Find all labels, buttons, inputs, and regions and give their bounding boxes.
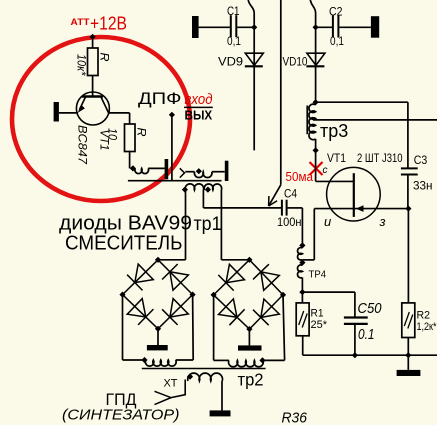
svg-text:C50: C50 [358, 301, 382, 317]
diode VD9 [245, 53, 263, 65]
wire R1 to rail [302, 336, 304, 355]
annotation red circle around attenuator [12, 37, 190, 201]
тр1 tap down to C4 wire [202, 190, 204, 208]
node left ring right [190, 292, 196, 298]
svg-text:R: R [98, 53, 112, 62]
node R1/C50 [299, 289, 305, 295]
svg-text:VT1: VT1 [327, 151, 346, 165]
wire source down to ТР4 tap [313, 209, 315, 260]
input terminal bar [54, 102, 59, 122]
svg-text:и: и [324, 214, 331, 229]
transistor base bar [82, 95, 103, 98]
svg-text:тр1: тр1 [194, 214, 222, 235]
wire тр1 right end to right ring [220, 190, 222, 260]
filter base line [128, 180, 222, 182]
VT1 channel [353, 173, 355, 217]
diode D5 (top-left) [226, 264, 245, 282]
svg-text:+12В: +12В [90, 14, 127, 34]
wire ТР4 to R1 node [301, 278, 303, 293]
inductor ТР4 winding upper [298, 248, 303, 260]
diode VD10 [307, 53, 325, 65]
resistor R 10к* [88, 48, 99, 76]
svg-text:СМЕСИТЕЛЬ: СМЕСИТЕЛЬ [65, 233, 183, 255]
svg-text:0.1: 0.1 [358, 327, 375, 343]
node ДПФ output [169, 112, 175, 118]
bottom rail wire [303, 354, 437, 356]
svg-text:R1: R1 [311, 308, 324, 320]
node left ring top [155, 257, 161, 263]
VT1 drain lead [316, 180, 354, 182]
svg-text:ВЫХ: ВЫХ [185, 107, 213, 122]
тр3 tap wire to right edge [313, 119, 437, 121]
wire node to C50 [302, 291, 355, 293]
capacitor C2 [332, 16, 334, 38]
wire node to R1 [301, 292, 303, 303]
svg-text:C1: C1 [227, 6, 240, 18]
svg-text:33н: 33н [413, 181, 433, 193]
node C1/VD9 [251, 24, 257, 30]
wire to filter coil L2 [185, 171, 194, 173]
ground right ring [248, 329, 250, 345]
тр2 primary left lead [171, 380, 185, 398]
wire C2 to ground bar [339, 26, 371, 28]
svg-text:BC847: BC847 [76, 125, 88, 165]
ground bar at C1 [192, 16, 199, 38]
тр2 primary right lead to ground [221, 381, 223, 410]
wire ring top to тр1 right [221, 259, 249, 261]
svg-text:R36: R36 [282, 410, 308, 425]
тр2 secondary right winding [229, 360, 264, 366]
red X measurement mark [310, 162, 323, 175]
node ТР4 top [299, 242, 305, 248]
diode D3 (bottom-left, toward bottom) [127, 299, 146, 317]
svg-text:с: с [323, 165, 328, 176]
wire left ring right node down [192, 295, 195, 360]
wire ДПФ node down [171, 115, 173, 181]
inductor ТР4 winding lower [297, 265, 302, 278]
wire R(10) down to filter coil [129, 152, 131, 169]
transistor emitter lead with arrow [80, 97, 86, 110]
svg-text:C3: C3 [414, 155, 428, 167]
VT1 source-gate line [314, 208, 408, 210]
svg-text:вход: вход [185, 91, 213, 108]
node тр3 top [313, 99, 319, 105]
svg-text:ТР4: ТР4 [309, 269, 327, 281]
wire right ring left node down [213, 295, 215, 361]
transformer тр1 winding left half [182, 187, 188, 193]
svg-text:C4: C4 [284, 189, 298, 201]
transformer тр3 winding [309, 104, 316, 140]
wire VD10 to тр3 top [315, 66, 317, 102]
wire C50 to rail [354, 324, 356, 355]
VT1 gate arrow [356, 205, 364, 212]
node C2/VD10 [313, 24, 319, 30]
тр2 secondary left winding [141, 357, 147, 363]
wire to top edge (squiggle) [248, 0, 254, 27]
svg-text:ХТ: ХТ [164, 378, 178, 390]
left mixer ring edges [123, 260, 159, 295]
capacitor C1 [230, 15, 232, 37]
transistor VT1 J310 circle [327, 167, 381, 221]
filter coil L2 with node [196, 168, 202, 174]
node +12V junction [90, 34, 96, 40]
connector ХТ chevron [155, 391, 172, 404]
diode D4 (bottom-right, toward bottom) [170, 299, 188, 318]
svg-text:50ма: 50ма [286, 169, 314, 184]
wire R to VT1 base [92, 76, 94, 97]
transistor collector lead [101, 97, 109, 113]
wire gate node to R2 [407, 209, 409, 303]
transformer тр1 winding right half [205, 187, 211, 193]
wire +12V to R(10k) [92, 37, 94, 48]
svg-text:0,1: 0,1 [330, 36, 344, 48]
wire C2 node to top edge (squiggle) [310, 0, 315, 27]
resistor R2 1,2к* [402, 303, 415, 338]
wire node to C2 [316, 26, 332, 28]
wire C1 node to VD9 [253, 27, 255, 66]
node C50/rail [352, 352, 358, 358]
diode D2 (top-right, toward top) [170, 272, 189, 290]
capacitor C3 [401, 167, 418, 169]
capacitor C4 [281, 200, 283, 216]
connector chevron [180, 168, 185, 177]
wire тр3 top to C3 rail [316, 101, 408, 103]
wire C2 node to VD10 [315, 27, 317, 66]
ground bar at C2 [371, 16, 379, 38]
svg-text:25*: 25* [311, 319, 328, 331]
svg-text:1,2к*: 1,2к* [417, 321, 437, 333]
wire C3 to gate node [407, 175, 409, 209]
diode D8 (bottom-right, toward bottom) [261, 299, 280, 318]
node right ring left [211, 292, 217, 298]
wire right ring right node down [283, 295, 285, 361]
capacitor C50 [344, 316, 368, 318]
node gate/C3/R2 [405, 206, 411, 212]
svg-text:2 ШТ J310: 2 ШТ J310 [357, 151, 403, 165]
node right ring right [280, 292, 286, 298]
svg-text:тр3: тр3 [320, 121, 348, 141]
wire тр1 tap to C4 [204, 207, 282, 209]
svg-text:R: R [135, 128, 149, 137]
тр3 core line [306, 106, 308, 135]
svg-text:VD10: VD10 [283, 57, 308, 69]
svg-text:VT1: VT1 [98, 130, 110, 151]
wire тр1 left end to left ring [185, 190, 187, 260]
node тр3 bottom / drain [313, 147, 319, 153]
svg-text:АТТ: АТТ [71, 17, 90, 28]
svg-text:10к*: 10к* [75, 54, 87, 76]
svg-text:100н: 100н [277, 217, 302, 229]
diode D6 (top-right, toward top) [261, 272, 279, 291]
wire drain node to VT1 [315, 150, 317, 181]
svg-text:(СИНТЕЗАТОР): (СИНТЕЗАТОР) [62, 407, 180, 424]
wire ground to C1 [199, 26, 230, 28]
svg-text:диоды BAV99: диоды BAV99 [59, 213, 192, 235]
wire VD9 to tap junction [253, 66, 255, 150]
svg-text:VD9: VD9 [218, 57, 243, 69]
wire emitter to input terminal [59, 112, 78, 114]
node left ring left [119, 292, 125, 298]
svg-text:ДПФ: ДПФ [138, 90, 182, 108]
filter coil L1 with node [130, 165, 136, 171]
ground left ring [157, 329, 159, 345]
diode D1 (top-left) [135, 264, 154, 283]
wire R2 to rail [407, 338, 409, 356]
svg-text:C2: C2 [329, 7, 343, 19]
node left ring bottom [155, 326, 161, 332]
wire left ring left node down [122, 295, 124, 360]
filter ground bar 1 [165, 159, 169, 179]
filter ground bar 2 [225, 161, 229, 181]
resistor R1 25* [296, 303, 309, 336]
svg-text:з: з [379, 214, 386, 229]
svg-text:тр2: тр2 [238, 370, 264, 390]
node R2/rail [405, 352, 411, 358]
ground under rail [407, 355, 409, 370]
node right ring top [246, 257, 252, 263]
svg-text:0,1: 0,1 [227, 36, 241, 48]
resistor R 10 [125, 124, 136, 152]
wire C1 to node [237, 26, 254, 28]
wire ring top to тр1 [158, 259, 186, 261]
wire C4 to ТР4 [288, 207, 303, 209]
тр2 core line [142, 368, 266, 370]
wire тр3 to drain node [315, 139, 317, 151]
тр2 primary winding [187, 374, 193, 380]
right mixer ring edges [214, 260, 250, 295]
svg-text:R2: R2 [417, 310, 431, 322]
node ТР4 tap [299, 260, 305, 266]
fraction line [184, 106, 213, 108]
diode D7 (bottom-left, toward bottom) [219, 299, 238, 317]
annotation arrow wire from top edge [280, 0, 282, 185]
wire collector to R(10) [109, 112, 130, 114]
transistor VT1 BC847 circle [76, 92, 109, 125]
node right ring bottom [246, 326, 252, 332]
